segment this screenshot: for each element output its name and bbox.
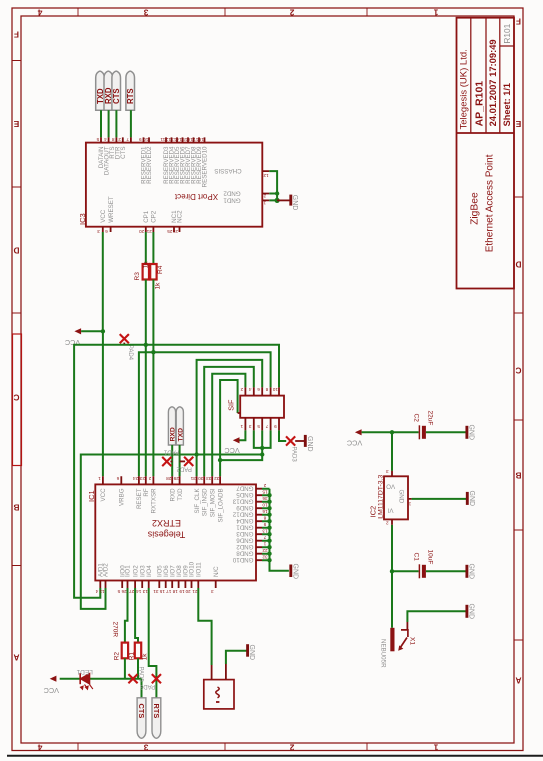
svg-text:ZigBee: ZigBee xyxy=(470,192,481,225)
pad PAD3 xyxy=(286,436,297,462)
wire rail IC2 to X1 xyxy=(391,525,393,628)
junction xyxy=(275,198,280,203)
capacitor C1 xyxy=(412,550,433,579)
svg-text:2: 2 xyxy=(289,8,294,18)
junction xyxy=(267,493,271,497)
svg-text:GND9: GND9 xyxy=(236,504,254,511)
svg-text:10: 10 xyxy=(143,137,149,142)
svg-text:17: 17 xyxy=(166,589,172,594)
svg-text:AP_R101: AP_R101 xyxy=(474,81,486,127)
junction xyxy=(260,446,264,450)
svg-text:4: 4 xyxy=(37,742,42,752)
svg-text:14: 14 xyxy=(136,589,142,594)
svg-text:GND1: GND1 xyxy=(236,524,254,531)
junction xyxy=(260,452,264,456)
svg-text:14: 14 xyxy=(176,137,182,142)
junction xyxy=(267,532,271,536)
SIF top pin stubs xyxy=(245,387,279,395)
svg-text:F: F xyxy=(516,16,521,26)
svg-text:R2: R2 xyxy=(113,652,120,661)
wire TXD to IC1 xyxy=(179,445,181,476)
svg-text:26: 26 xyxy=(172,229,178,234)
svg-text:3: 3 xyxy=(211,589,214,594)
junction xyxy=(267,552,271,556)
junction xyxy=(101,329,105,333)
svg-text:29: 29 xyxy=(173,476,179,481)
pad PAD6 xyxy=(139,674,161,689)
power symbol VCC (SIF pin1) xyxy=(224,430,245,455)
svg-text:GND4: GND4 xyxy=(236,517,254,524)
svg-text:IC3: IC3 xyxy=(78,213,87,225)
svg-text:GND2: GND2 xyxy=(223,189,241,196)
junction xyxy=(151,350,155,354)
IC1 bottom pin stubs xyxy=(100,581,215,589)
IC U3: IC3 XPort Direct module xyxy=(86,143,262,227)
antenna right pin stub xyxy=(225,664,227,680)
junction xyxy=(267,558,271,562)
svg-text:PAD2: PAD2 xyxy=(176,465,192,471)
power symbol VCC (top left) xyxy=(65,328,103,347)
wire GND bus xyxy=(262,489,289,571)
svg-text:13: 13 xyxy=(142,589,148,594)
svg-text:GND10: GND10 xyxy=(232,556,253,563)
svg-text:25: 25 xyxy=(167,229,173,234)
svg-text:RF: RF xyxy=(143,488,150,496)
svg-text:6: 6 xyxy=(257,387,260,392)
antenna left pin stub xyxy=(211,665,213,680)
wire C2 to GND xyxy=(426,431,466,433)
svg-text:R101: R101 xyxy=(502,23,512,43)
svg-text:E: E xyxy=(13,119,19,129)
svg-text:RTS: RTS xyxy=(126,88,135,104)
svg-text:PAD3: PAD3 xyxy=(291,447,297,463)
power symbol VCC (LED row) xyxy=(44,676,59,695)
svg-text:26: 26 xyxy=(121,589,127,594)
svg-text:16: 16 xyxy=(262,509,268,514)
svg-text:GND: GND xyxy=(291,195,298,211)
svg-text:I/O2: I/O2 xyxy=(132,565,139,577)
wire CP2 to R4 xyxy=(152,232,154,264)
svg-text:SIF_INSD: SIF_INSD xyxy=(201,488,208,516)
svg-text:13: 13 xyxy=(171,137,177,142)
svg-text:21: 21 xyxy=(192,589,198,594)
svg-text:24.01.2007 17:09:49: 24.01.2007 17:09:49 xyxy=(487,39,498,126)
svg-text:8: 8 xyxy=(263,516,266,521)
svg-text:9: 9 xyxy=(263,522,266,527)
svg-text:RESERVED2: RESERVED2 xyxy=(146,146,153,184)
pad PAD4 xyxy=(120,334,134,361)
svg-text:A: A xyxy=(14,652,20,662)
svg-text:SIF_MOSI: SIF_MOSI xyxy=(209,488,216,517)
svg-text:GND: GND xyxy=(467,604,474,620)
IC U1: IC1 Telegesis ETRX2 module xyxy=(95,484,256,580)
svg-text:1: 1 xyxy=(263,542,266,547)
svg-text:C: C xyxy=(516,365,522,375)
svg-text:E: E xyxy=(515,119,521,129)
svg-text:6: 6 xyxy=(116,476,119,481)
svg-text:7: 7 xyxy=(126,137,129,142)
svg-text:R3: R3 xyxy=(134,272,141,281)
svg-text:RESERVED10: RESERVED10 xyxy=(202,146,209,187)
svg-text:GND6: GND6 xyxy=(236,537,254,544)
svg-text:7: 7 xyxy=(263,535,266,540)
svg-text:PAD6: PAD6 xyxy=(139,683,155,689)
resistor R3 xyxy=(134,261,149,281)
junction xyxy=(390,569,394,573)
svg-text:GND: GND xyxy=(467,425,474,441)
svg-text:1: 1 xyxy=(433,742,438,752)
svg-text:30: 30 xyxy=(198,476,204,481)
IC U2: regulator IC2 LM1117DT-3.3 xyxy=(369,469,412,526)
svg-text:15: 15 xyxy=(159,589,165,594)
wire I/O2 to R1 xyxy=(135,588,138,643)
resistor R1 xyxy=(129,643,149,661)
svg-text:9: 9 xyxy=(139,137,142,142)
svg-text:GND13: GND13 xyxy=(232,498,253,505)
svg-text:GND3: GND3 xyxy=(236,530,254,537)
wire antenna to GND xyxy=(226,651,247,664)
svg-text:SIF: SIF xyxy=(227,399,236,411)
SIF left pin stub xyxy=(238,412,241,414)
svg-text:C: C xyxy=(14,392,20,402)
junction xyxy=(275,191,279,195)
SIF bottom pin stubs xyxy=(245,418,279,431)
svg-text:LED1: LED1 xyxy=(76,668,93,675)
svg-text:GND: GND xyxy=(306,436,313,452)
ground symbol (X1) xyxy=(467,604,475,620)
junction xyxy=(267,506,271,510)
svg-text:IC1: IC1 xyxy=(87,490,96,502)
svg-text:10: 10 xyxy=(262,503,268,508)
ground symbol (IC1 bus) xyxy=(291,564,299,580)
svg-text:NC2: NC2 xyxy=(177,210,184,223)
svg-text:I/O11: I/O11 xyxy=(196,562,203,577)
svg-text:20: 20 xyxy=(139,229,145,234)
junction xyxy=(267,519,271,523)
svg-text:5: 5 xyxy=(96,137,99,142)
svg-text:A: A xyxy=(516,675,522,685)
svg-text:C2: C2 xyxy=(412,414,419,423)
svg-text:4: 4 xyxy=(104,137,107,142)
junction xyxy=(267,539,271,543)
wire CTS drop xyxy=(141,679,143,698)
svg-text:NEBU05R: NEBU05R xyxy=(380,639,387,668)
svg-text:11: 11 xyxy=(160,137,165,142)
svg-text:CP2: CP2 xyxy=(151,210,158,223)
connector pin CTS xyxy=(112,71,121,110)
svg-text:2: 2 xyxy=(386,521,389,526)
resistor R2 xyxy=(112,622,129,661)
connector pin CTS (bottom) xyxy=(137,698,146,738)
svg-text:GND: GND xyxy=(397,490,404,504)
svg-text:4: 4 xyxy=(95,589,98,594)
svg-text:32: 32 xyxy=(262,555,268,560)
svg-text:VCC: VCC xyxy=(100,488,107,502)
svg-text:PAD5: PAD5 xyxy=(137,667,143,683)
svg-text:17: 17 xyxy=(193,137,199,142)
svg-text:SIF_LOADB: SIF_LOADB xyxy=(217,488,224,522)
svg-text:1: 1 xyxy=(240,424,243,429)
wire I/O11 to antenna xyxy=(198,588,211,665)
svg-text:VCC: VCC xyxy=(100,209,107,223)
power symbol VCC (regulator output) xyxy=(347,429,392,447)
ground symbol (C1) xyxy=(467,564,475,580)
connector pin TXD xyxy=(176,407,184,445)
wire RXD to IC3 xyxy=(108,110,110,137)
IC1 top pin stubs xyxy=(103,476,220,484)
svg-text:1k: 1k xyxy=(155,282,162,290)
svg-text:GND2: GND2 xyxy=(236,543,254,550)
svg-text:1k: 1k xyxy=(142,261,149,269)
svg-text:2: 2 xyxy=(148,476,151,481)
svg-text:8: 8 xyxy=(111,137,114,142)
wire C1 to GND xyxy=(426,570,466,572)
wire X1 sleeve to GND xyxy=(406,622,408,630)
svg-text:10: 10 xyxy=(272,387,278,392)
wire RXD to IC1 xyxy=(171,445,173,476)
junction xyxy=(144,343,148,347)
svg-text:3: 3 xyxy=(143,742,148,752)
svg-text:27: 27 xyxy=(129,589,135,594)
svg-text:RTS: RTS xyxy=(152,704,161,719)
antenna box (module) xyxy=(204,664,234,709)
wire I/O4 to RTS xyxy=(149,588,157,698)
svg-text:19: 19 xyxy=(179,589,185,594)
svg-text:4: 4 xyxy=(37,8,42,18)
svg-text:2: 2 xyxy=(118,137,121,142)
svg-text:1: 1 xyxy=(433,8,438,18)
svg-text:15: 15 xyxy=(182,137,188,142)
junction xyxy=(218,458,222,462)
svg-text:31: 31 xyxy=(153,589,159,594)
svg-text:GND7: GND7 xyxy=(236,485,254,492)
wire R4 to IC1 xyxy=(152,280,154,477)
svg-text:I/O4: I/O4 xyxy=(146,565,153,577)
junction xyxy=(267,500,271,504)
resistor R4 xyxy=(150,264,164,290)
svg-text:1: 1 xyxy=(408,502,411,507)
wire CTS to IC3 xyxy=(115,110,117,137)
svg-text:LM1117DT-3.3: LM1117DT-3.3 xyxy=(378,475,385,519)
svg-text:Telegesis: Telegesis xyxy=(147,530,185,540)
svg-text:CTS: CTS xyxy=(120,147,127,159)
svg-text:C1: C1 xyxy=(412,553,419,562)
ground symbol (IC2) xyxy=(467,491,475,507)
connector pin RXD xyxy=(168,407,176,445)
capacitor C2 xyxy=(412,411,433,440)
svg-text:24: 24 xyxy=(133,476,139,481)
svg-text:IC2: IC2 xyxy=(369,506,378,518)
wire R2 to LED row xyxy=(124,658,126,678)
svg-text:VCC: VCC xyxy=(44,686,59,695)
svg-text:TXD: TXD xyxy=(177,488,184,501)
svg-text:VO: VO xyxy=(386,482,395,489)
svg-text:I/O1: I/O1 xyxy=(125,565,132,577)
svg-text:22uF: 22uF xyxy=(426,411,433,426)
svg-text:5: 5 xyxy=(257,424,260,429)
ground symbol (IC3) xyxy=(277,195,298,211)
svg-text:3: 3 xyxy=(143,8,148,18)
svg-text:12: 12 xyxy=(263,173,269,178)
svg-text:R1: R1 xyxy=(129,652,136,661)
wire VCC rail IC3 to IC1 xyxy=(102,232,104,476)
junction xyxy=(267,545,271,549)
IC1 right pin stubs (GND pins) xyxy=(256,489,262,561)
svg-text:CP1: CP1 xyxy=(143,210,150,223)
connector X1 power jack NEBU05R xyxy=(380,628,416,668)
svg-text:RXTXSR: RXTXSR xyxy=(151,488,158,514)
svg-text:2: 2 xyxy=(240,387,243,392)
svg-text:SIF_CLK: SIF_CLK xyxy=(194,488,201,514)
svg-text:21: 21 xyxy=(146,229,152,234)
wire SIF pin4 to IC1 SIF_INSD xyxy=(204,367,254,476)
svg-text:F: F xyxy=(14,29,19,39)
wire SIF pin6 to IC1 SIF_CLK xyxy=(197,360,263,476)
svg-text:31: 31 xyxy=(190,476,196,481)
LED LED1 xyxy=(76,668,93,689)
svg-text:3: 3 xyxy=(386,469,389,474)
svg-text:TXD: TXD xyxy=(177,428,184,442)
svg-text:R4: R4 xyxy=(157,265,164,274)
junction xyxy=(267,513,271,517)
wire I/O1 to R2 xyxy=(125,588,128,643)
svg-text:13: 13 xyxy=(262,529,268,534)
junction xyxy=(390,430,394,434)
svg-text:9: 9 xyxy=(274,424,277,429)
ground symbol (C2) xyxy=(467,425,475,441)
svg-text:12: 12 xyxy=(165,137,171,142)
connector SIF xyxy=(227,396,285,418)
svg-text:CTS: CTS xyxy=(112,88,121,104)
wire SIF pin3-pin7 xyxy=(254,430,271,448)
svg-text:32: 32 xyxy=(214,476,220,481)
IC3 right pin stubs xyxy=(262,171,269,200)
svg-text:Sheet: 1/1: Sheet: 1/1 xyxy=(502,83,512,126)
svg-text:36: 36 xyxy=(262,496,268,501)
svg-text:18: 18 xyxy=(198,137,204,142)
svg-text:A/D2: A/D2 xyxy=(103,563,110,577)
svg-text:B: B xyxy=(516,470,522,480)
svg-text:VCC: VCC xyxy=(224,446,239,455)
svg-text:16: 16 xyxy=(187,137,193,142)
ground symbol (antenna) xyxy=(248,644,256,660)
svg-text:VRBG: VRBG xyxy=(119,488,126,506)
svg-text:3: 3 xyxy=(97,229,100,234)
svg-text:GND12: GND12 xyxy=(232,511,253,518)
svg-text:GND: GND xyxy=(467,564,474,580)
wire VCC-LED1-R2 row xyxy=(60,678,142,680)
svg-text:D: D xyxy=(14,245,20,255)
connector pin RXD xyxy=(104,71,113,110)
svg-text:RXD: RXD xyxy=(169,488,176,502)
wire IC2 GND pin to GND xyxy=(412,498,466,500)
wire TXD to IC3 xyxy=(100,110,102,137)
svg-text:VCC: VCC xyxy=(347,438,362,447)
svg-text:VI: VI xyxy=(387,506,393,513)
pad PAD5 xyxy=(128,667,143,684)
junction xyxy=(267,526,271,530)
wire VCC to C2 xyxy=(392,431,419,433)
wire RTS to IC3 xyxy=(130,110,132,137)
wire rail to C1 xyxy=(392,570,419,572)
ground symbol (SIF) xyxy=(295,435,313,452)
svg-text:GND: GND xyxy=(291,564,298,580)
svg-text:1: 1 xyxy=(263,201,266,206)
wire CHASSIS to GND xyxy=(269,171,277,200)
svg-text:3: 3 xyxy=(248,424,251,429)
wire SIF pin5 hook to IC1 SIF_LOADB xyxy=(220,380,262,476)
svg-text:ETRX2: ETRX2 xyxy=(152,518,181,528)
IC3 top pin stubs xyxy=(101,137,205,142)
svg-text:B: B xyxy=(14,502,20,512)
svg-text:CHASSIS: CHASSIS xyxy=(214,167,241,174)
pad PAD2 xyxy=(176,457,193,472)
svg-text:GND: GND xyxy=(468,491,475,507)
svg-text:PAD4: PAD4 xyxy=(127,345,133,361)
wire SIF pin9 to GND xyxy=(279,430,286,441)
wire R1 to CTS junction xyxy=(137,658,139,678)
svg-text:5: 5 xyxy=(117,589,120,594)
svg-text:CTS: CTS xyxy=(137,704,146,719)
svg-text:1k: 1k xyxy=(141,653,148,661)
svg-text:2: 2 xyxy=(289,742,294,752)
svg-text:20: 20 xyxy=(185,589,191,594)
svg-text:22: 22 xyxy=(262,548,268,553)
connector pin TXD xyxy=(96,71,105,110)
svg-text:18: 18 xyxy=(172,589,178,594)
svg-text:GND5: GND5 xyxy=(236,491,254,498)
svg-text:Telegesis (UK) Ltd.: Telegesis (UK) Ltd. xyxy=(458,49,469,129)
svg-text:X1: X1 xyxy=(409,637,416,645)
svg-text:N/C: N/C xyxy=(213,566,220,577)
IC3 bottom pin stubs xyxy=(103,227,180,232)
svg-text:270R: 270R xyxy=(112,622,119,638)
wire net R3/SIF pin10 (H1 + left wrap) xyxy=(74,345,279,598)
svg-text:2: 2 xyxy=(263,483,266,488)
svg-text:PAD1: PAD1 xyxy=(163,449,179,455)
svg-text:10uF: 10uF xyxy=(426,550,433,565)
svg-text:28: 28 xyxy=(166,476,172,481)
svg-text:11: 11 xyxy=(99,589,104,594)
svg-text:6: 6 xyxy=(105,229,108,234)
connector pin RTS (bottom) xyxy=(152,698,161,738)
wire R3 to IC1 xyxy=(145,280,147,477)
svg-text:GND1: GND1 xyxy=(223,196,241,203)
pad PAD1 xyxy=(162,449,179,467)
wire SIF pin2 to IC1 SIF_MOSI xyxy=(212,374,245,477)
wire VCC rail to IC2 xyxy=(391,432,393,471)
svg-text:D: D xyxy=(516,259,522,269)
svg-text:WRESET: WRESET xyxy=(108,196,115,223)
svg-text:XPort Direct: XPort Direct xyxy=(174,192,218,201)
svg-text:GND: GND xyxy=(248,645,255,661)
svg-text:15: 15 xyxy=(262,490,268,495)
wire net R4/SIF pin8/RESET xyxy=(139,352,271,476)
svg-text:1: 1 xyxy=(98,476,101,481)
svg-text:4: 4 xyxy=(248,387,251,392)
junction xyxy=(194,452,198,456)
wire net A/D2 row (long horizontal) xyxy=(81,455,262,609)
svg-text:33: 33 xyxy=(206,476,212,481)
svg-text:7: 7 xyxy=(265,424,268,429)
svg-text:Ethernet Access Point: Ethernet Access Point xyxy=(485,154,496,252)
svg-text:8: 8 xyxy=(265,387,268,392)
svg-text:GND8: GND8 xyxy=(236,550,254,557)
svg-text:23: 23 xyxy=(139,476,145,481)
wire CP1 to R3 xyxy=(145,232,147,264)
connector pin RTS xyxy=(126,71,135,110)
